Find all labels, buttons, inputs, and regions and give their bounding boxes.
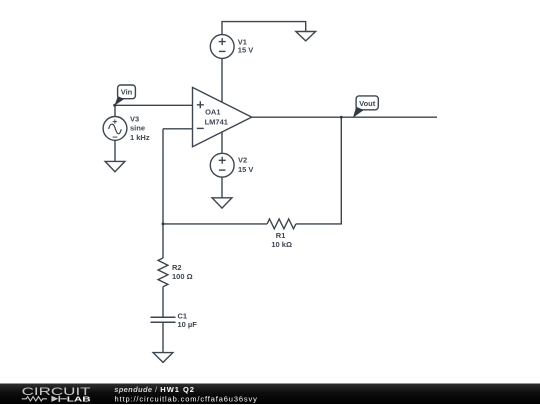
svg-text:LM741: LM741 xyxy=(205,117,228,126)
svg-text:15 V: 15 V xyxy=(238,165,253,174)
svg-text:OA1: OA1 xyxy=(205,108,220,117)
svg-text:HW1 Q2: HW1 Q2 xyxy=(160,385,195,394)
svg-text:V3: V3 xyxy=(130,115,139,124)
svg-text:V2: V2 xyxy=(238,156,247,165)
svg-text:Vin: Vin xyxy=(121,87,133,96)
svg-text:sine: sine xyxy=(130,124,145,133)
svg-text:15 V: 15 V xyxy=(238,45,253,54)
svg-text:100 Ω: 100 Ω xyxy=(172,272,193,281)
svg-text:R1: R1 xyxy=(276,231,286,240)
svg-text:10 kΩ: 10 kΩ xyxy=(271,240,292,249)
svg-text:LAB: LAB xyxy=(67,395,91,404)
svg-text:Vout: Vout xyxy=(359,99,376,108)
svg-text:R2: R2 xyxy=(172,263,182,272)
svg-text:1 kHz: 1 kHz xyxy=(130,133,150,142)
svg-text:spendude: spendude xyxy=(114,385,152,394)
svg-text:http://circuitlab.com/cffafa6u: http://circuitlab.com/cffafa6u36svy xyxy=(115,394,258,403)
svg-text:10 µF: 10 µF xyxy=(178,320,198,329)
